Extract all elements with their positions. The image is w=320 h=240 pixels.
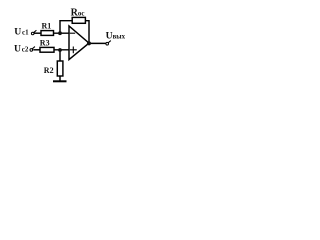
- svg-text:R1: R1: [42, 21, 52, 30]
- svg-text:R2: R2: [44, 66, 54, 75]
- svg-text:Uвых: Uвых: [106, 31, 126, 42]
- svg-text:Rос: Rос: [71, 7, 85, 18]
- svg-text:Uс1: Uс1: [14, 26, 29, 37]
- svg-text:R3: R3: [40, 38, 50, 47]
- svg-text:Uс2: Uс2: [14, 43, 29, 54]
